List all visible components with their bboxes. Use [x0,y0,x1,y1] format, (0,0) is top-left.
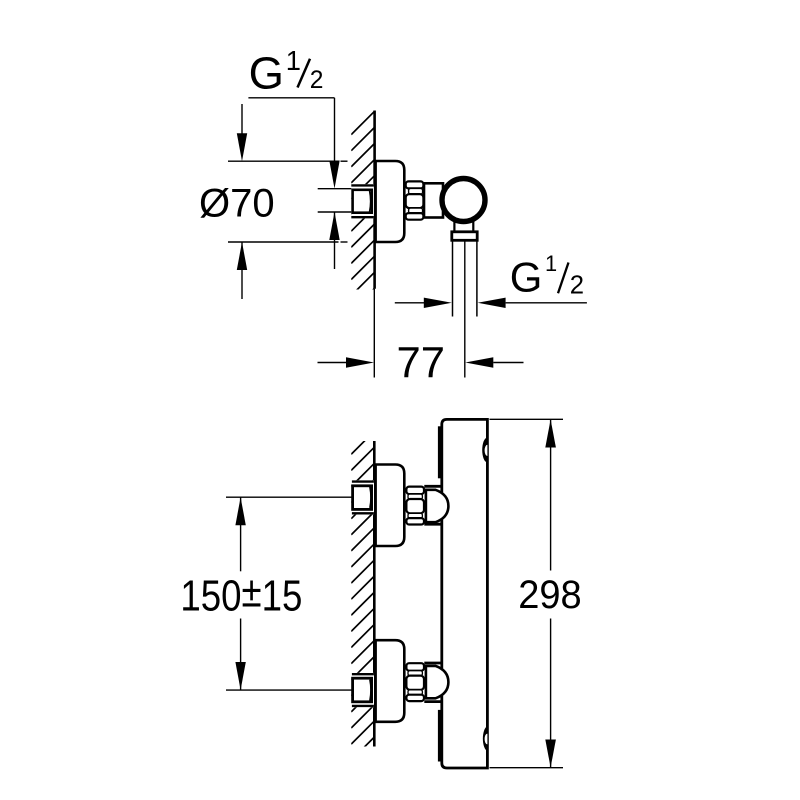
svg-text:2: 2 [310,67,324,94]
svg-text:2: 2 [570,271,584,299]
svg-text:G: G [510,253,543,300]
svg-text:1: 1 [286,45,301,76]
svg-text:1: 1 [545,251,557,276]
svg-text:G: G [249,48,284,99]
svg-text:150±15: 150±15 [180,568,302,620]
svg-text:Ø70: Ø70 [199,181,275,225]
svg-text:77: 77 [397,340,446,388]
svg-text:298: 298 [518,572,582,617]
